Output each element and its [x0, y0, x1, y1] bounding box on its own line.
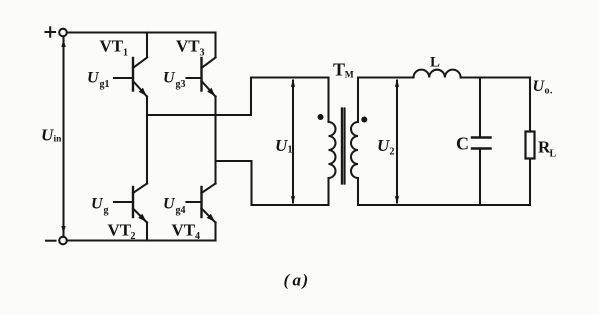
svg-text:U: U	[41, 126, 54, 145]
svg-text:g1: g1	[100, 79, 110, 90]
svg-text:.: .	[550, 86, 553, 97]
svg-text:g: g	[104, 205, 109, 216]
svg-text:U: U	[377, 136, 390, 155]
svg-text:U: U	[91, 196, 104, 213]
svg-text:T: T	[333, 60, 345, 80]
svg-text:2: 2	[390, 147, 395, 158]
svg-text:L: L	[550, 149, 557, 160]
svg-text:VT: VT	[100, 37, 124, 56]
svg-text:2: 2	[131, 231, 136, 242]
svg-text:g3: g3	[176, 79, 186, 90]
svg-text:4: 4	[195, 231, 200, 242]
svg-text:in: in	[54, 135, 63, 145]
svg-text:VT: VT	[176, 37, 200, 56]
svg-text:VT: VT	[172, 221, 196, 240]
svg-text:L: L	[430, 55, 440, 71]
svg-text:1: 1	[288, 145, 293, 156]
svg-text:3: 3	[200, 48, 205, 59]
svg-text:M: M	[345, 71, 354, 81]
svg-text:o: o	[545, 86, 550, 97]
svg-text:a: a	[293, 271, 302, 290]
svg-text:U: U	[163, 196, 176, 213]
svg-text:U: U	[87, 70, 100, 87]
svg-text:1: 1	[123, 48, 128, 59]
svg-text:VT: VT	[108, 221, 132, 240]
svg-text:): )	[301, 271, 309, 290]
svg-text:U: U	[163, 70, 176, 87]
svg-text:U: U	[275, 136, 288, 155]
svg-text:(: (	[284, 271, 291, 290]
svg-text:C: C	[456, 134, 469, 154]
svg-text:g4: g4	[176, 205, 186, 216]
